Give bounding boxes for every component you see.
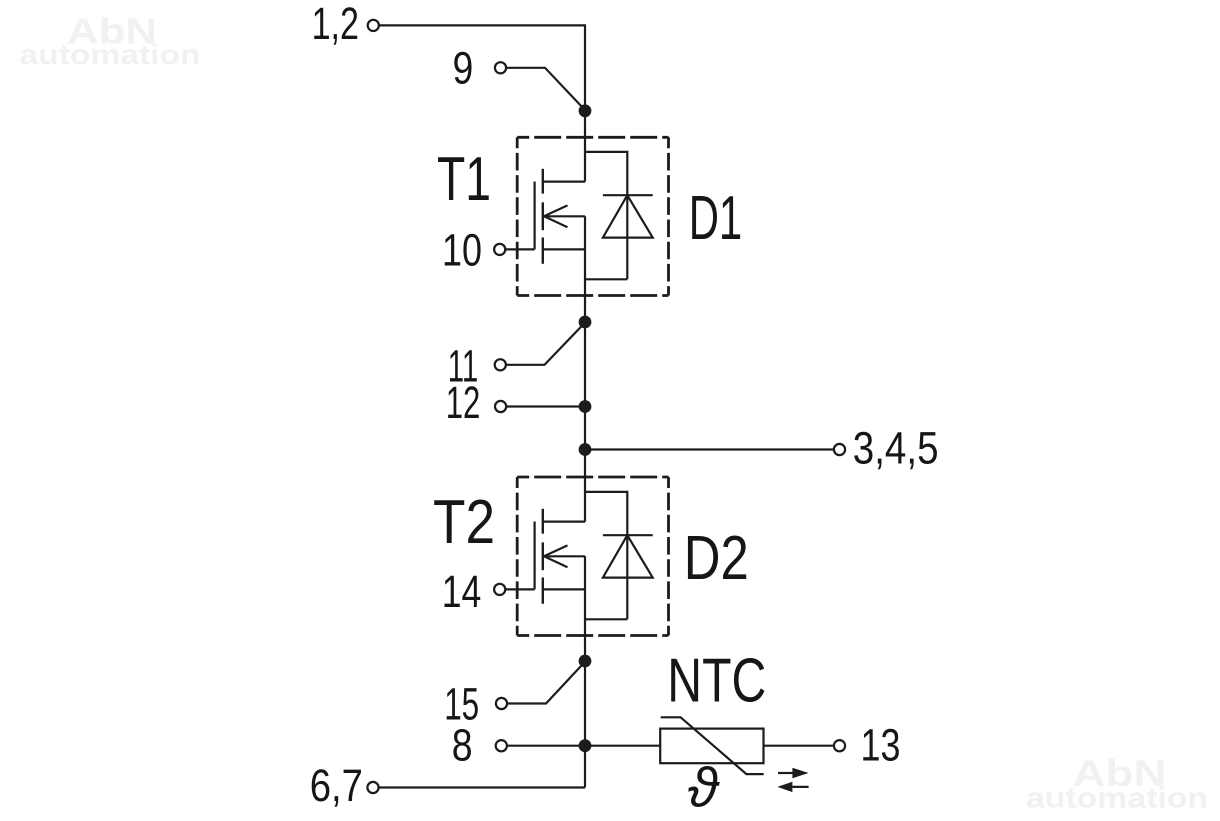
svg-text:NTC: NTC (667, 646, 766, 715)
wire main vertical T1 source to T2 drain (584, 216, 586, 521)
transistor T2 (MOSFET) (506, 509, 585, 604)
svg-text:13: 13 (861, 719, 901, 770)
wire from 11 to node (506, 323, 585, 365)
D2 cathode bar (603, 534, 653, 536)
T1 drain stub (543, 181, 585, 183)
thermistor NTC body (660, 729, 763, 764)
T2 source stub (543, 588, 585, 590)
D1 cathode bar (603, 194, 653, 196)
diode D1 (585, 152, 653, 279)
T2 channel segments (542, 509, 544, 534)
svg-text:6,7: 6,7 (310, 760, 363, 811)
node junction 8 (579, 739, 592, 752)
svg-text:automation: automation (20, 39, 201, 70)
svg-text:3,4,5: 3,4,5 (853, 423, 939, 474)
wire from 12 to node (506, 405, 585, 407)
T1 channel segments (542, 169, 544, 194)
svg-text:12: 12 (446, 377, 481, 428)
wire to 3,4,5 (585, 448, 834, 450)
svg-text:D1: D1 (689, 184, 743, 253)
D2 top branch (585, 492, 627, 535)
D1 top branch (585, 152, 627, 195)
terminal 14 circle (494, 584, 505, 595)
wire from 1,2 to top corner (379, 25, 585, 110)
D1 vertical through (626, 195, 628, 279)
watermark top-left (20, 10, 201, 70)
svg-text:D2: D2 (684, 524, 749, 593)
svg-text:1,2: 1,2 (312, 0, 359, 49)
T1 dashed box (517, 137, 668, 295)
svg-text:9: 9 (453, 42, 474, 93)
T2 gate bar (533, 522, 535, 590)
diode D2 (585, 492, 653, 619)
svg-text:T1: T1 (437, 145, 491, 214)
T1 gate bar (533, 182, 535, 250)
T2 drain stub (543, 520, 585, 522)
wire 6,7 bottom (378, 786, 585, 788)
terminal 11 circle (495, 359, 506, 370)
D1 bottom branch (585, 278, 627, 280)
terminal 1,2 circle (368, 20, 379, 31)
wire from 8 to NTC (507, 745, 661, 747)
D2 bottom branch (585, 618, 627, 620)
wire main vertical to T1 drain (584, 111, 586, 182)
D2 triangle (603, 535, 653, 577)
terminal 9 circle (495, 62, 506, 73)
wire from 15 to node (507, 662, 585, 704)
terminal 13 circle (834, 740, 845, 751)
T1 source stub (543, 248, 585, 250)
node junction top (1,2 / 9 / T1 drain) (579, 104, 592, 117)
D2 vertical through (626, 535, 628, 619)
terminal 15 circle (496, 698, 507, 709)
D1 triangle (603, 195, 653, 237)
node junction 3,4,5 (579, 443, 592, 456)
terminal 3,4,5 circle (834, 444, 845, 455)
svg-text:10: 10 (442, 224, 482, 275)
svg-text:T2: T2 (433, 488, 495, 557)
node junction 12 (579, 400, 592, 413)
T2 gate lead (506, 588, 535, 590)
thermistor NTC diagonal mark (661, 717, 764, 774)
T2 dashed box (517, 477, 668, 636)
svg-text:14: 14 (442, 566, 482, 617)
terminal 6,7 circle (367, 782, 378, 793)
svg-text:8: 8 (452, 720, 473, 771)
watermark bottom-right (1026, 752, 1208, 815)
wire main vertical T2 source to bottom corner (584, 556, 586, 787)
terminal 10 circle (494, 244, 505, 255)
bidirectional arrows (777, 768, 808, 792)
T1 gate lead (506, 248, 535, 250)
node junction (T2 source / 15) (579, 655, 592, 668)
T2 body stub with arrow (544, 555, 585, 557)
transistor T1 (MOSFET) (506, 169, 585, 264)
T1 body stub with arrow (544, 215, 585, 217)
terminal 8 circle (496, 740, 507, 751)
wire NTC to 13 (764, 745, 835, 747)
svg-text:ϑ: ϑ (688, 756, 721, 819)
terminal 12 circle (495, 401, 506, 412)
node junction (T1 source / 11) (579, 316, 592, 329)
svg-text:automation: automation (1026, 783, 1208, 815)
wire from 9 to node (506, 68, 586, 111)
